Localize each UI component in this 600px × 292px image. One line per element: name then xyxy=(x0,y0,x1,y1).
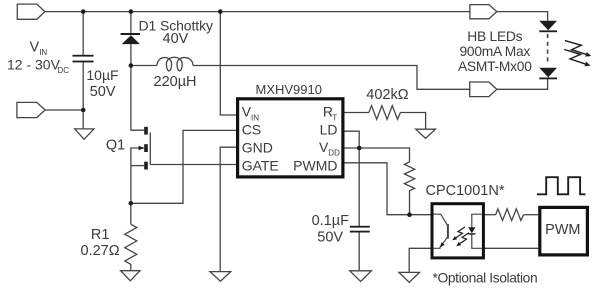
wire inductor to LED return xyxy=(193,66,470,90)
square wave symbol xyxy=(537,177,586,194)
opto U2 CPC1001N box xyxy=(432,204,483,258)
resistor opto-PWM xyxy=(496,209,524,221)
LED chain dashed xyxy=(547,34,549,64)
svg-text:V: V xyxy=(30,39,40,55)
svg-text:MXHV9910: MXHV9910 xyxy=(256,82,322,97)
wire VDD pin xyxy=(345,148,410,162)
svg-text:402kΩ: 402kΩ xyxy=(366,87,408,103)
wire RT resistor to ground xyxy=(400,113,425,130)
capacitor C1 10uF xyxy=(73,55,94,63)
connector arrow LED minus xyxy=(470,82,497,97)
connector arrow input minus xyxy=(17,102,45,117)
LED D3 xyxy=(539,68,557,80)
wire R1 top xyxy=(130,203,132,224)
wire 0.1uF to ground xyxy=(358,232,360,270)
LED D2 xyxy=(539,21,557,33)
svg-text:900mA Max: 900mA Max xyxy=(459,44,530,59)
ground GND pin xyxy=(210,272,231,282)
wire cap branch lower xyxy=(82,62,84,129)
node PWMD-pullup xyxy=(407,212,412,217)
node CS-sense xyxy=(129,201,134,206)
svg-text:10µF: 10µF xyxy=(86,67,118,83)
ground input xyxy=(75,129,94,139)
inductor L1 220uH xyxy=(157,57,193,71)
wire LED string bottom xyxy=(497,79,548,89)
svg-text:DC: DC xyxy=(58,66,70,75)
diode D1 xyxy=(121,33,140,44)
wire input minus xyxy=(45,109,83,111)
opto emitter arrow xyxy=(440,242,445,247)
wire R1 bottom xyxy=(130,264,132,271)
svg-text:CPC1001N*: CPC1001N* xyxy=(426,183,505,199)
wire GND pin xyxy=(220,147,236,271)
svg-text:Q1: Q1 xyxy=(106,138,125,154)
wire drain xyxy=(131,66,144,131)
wire LED string top xyxy=(497,12,548,21)
svg-text:40V: 40V xyxy=(163,31,189,47)
svg-text:HB LEDs: HB LEDs xyxy=(467,29,522,44)
node switch xyxy=(129,63,134,68)
svg-text:PWMD: PWMD xyxy=(293,157,337,173)
wire body with source tie xyxy=(131,148,144,203)
wire diode bottom xyxy=(130,44,132,65)
wire switch node to inductor xyxy=(131,65,157,67)
opto LED xyxy=(472,214,482,248)
wire gate to GATE pin xyxy=(150,164,236,166)
node cap-top xyxy=(81,9,86,14)
wire opto cathode to ground xyxy=(409,248,430,272)
wire PWMD pin xyxy=(345,163,431,215)
wire resistor to PWM box xyxy=(524,214,539,216)
node vin-pin-top xyxy=(218,9,223,14)
svg-text:50V: 50V xyxy=(317,230,343,246)
svg-text:0.1µF: 0.1µF xyxy=(312,213,350,229)
ground R1 xyxy=(121,271,140,281)
opto phototransistor xyxy=(434,214,448,248)
ground RT xyxy=(416,129,436,138)
svg-text:12 - 30V: 12 - 30V xyxy=(7,57,61,73)
svg-text:ASMT-Mx00: ASMT-Mx00 xyxy=(458,59,532,74)
wire opto collector to resistor xyxy=(484,214,495,216)
resistor VDD pullup xyxy=(404,162,414,195)
resistor R1 xyxy=(125,224,137,264)
wire CS path xyxy=(131,130,236,203)
svg-text:LD: LD xyxy=(320,122,338,138)
svg-text:220µH: 220µH xyxy=(154,74,197,90)
svg-text:0.27Ω: 0.27Ω xyxy=(81,243,120,259)
svg-text:GND: GND xyxy=(242,139,273,155)
wire source xyxy=(131,165,144,167)
connector arrow input plus xyxy=(17,4,45,19)
node diode-top xyxy=(129,9,134,14)
node LD-VDD xyxy=(357,146,362,151)
wire top rail xyxy=(45,11,470,13)
wire diode top xyxy=(130,12,132,34)
svg-text:PWM: PWM xyxy=(545,222,580,238)
wire opto emitter to PWM box xyxy=(484,247,538,249)
svg-text:*Optional Isolation: *Optional Isolation xyxy=(433,271,538,286)
LED light emission arrows xyxy=(564,41,586,64)
resistor RT 402k xyxy=(369,106,401,120)
ground opto xyxy=(399,272,420,282)
connector arrow LED plus xyxy=(470,5,497,19)
opto light arrows xyxy=(456,227,469,244)
node input-minus xyxy=(81,108,86,113)
svg-text:CS: CS xyxy=(242,122,261,138)
wire RT pin xyxy=(345,112,369,114)
capacitor 0.1uF xyxy=(350,226,370,233)
wire VIN pin xyxy=(220,12,236,115)
op-amp U1 MXHV9910 box xyxy=(238,99,343,177)
svg-text:DD: DD xyxy=(328,149,340,158)
svg-text:50V: 50V xyxy=(90,84,116,100)
wire LD pin xyxy=(345,131,360,226)
wire pullup resistor bottom xyxy=(409,195,411,215)
svg-text:R1: R1 xyxy=(91,227,110,243)
svg-text:GATE: GATE xyxy=(242,157,279,173)
ground 0.1uF xyxy=(350,271,372,282)
PWM box xyxy=(540,207,588,255)
wire cap branch upper xyxy=(82,12,84,56)
transistor Q1 xyxy=(139,127,151,170)
